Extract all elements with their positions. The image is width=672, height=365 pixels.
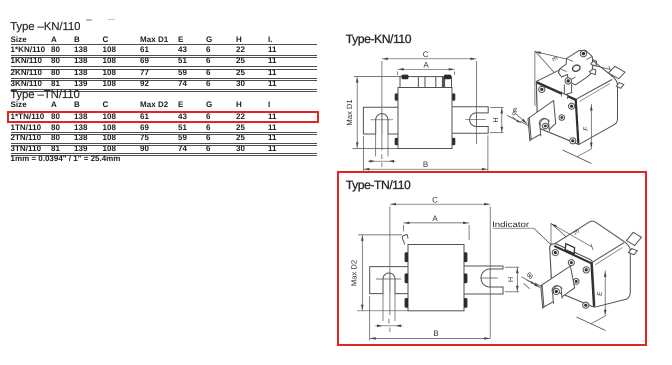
KN 3D body inner edges xyxy=(576,80,612,145)
KN 2D label I xyxy=(379,152,384,160)
TN 3D E dimension right xyxy=(604,270,607,316)
KN 3D blade thickness edge xyxy=(528,118,550,141)
TN 2D fuse body xyxy=(408,245,464,311)
KN 2D cap top tabs xyxy=(402,75,409,80)
Indicator leader line xyxy=(534,228,551,245)
KN 2D dimension B xyxy=(363,168,488,171)
svg-text:E: E xyxy=(550,56,559,64)
KN 2D thickness leader 6 xyxy=(507,115,530,126)
TN 2D dimension C xyxy=(390,203,490,206)
KN 3D plate screws xyxy=(539,86,545,92)
TN 2D thickness leader 6 xyxy=(522,277,544,288)
svg-text:I: I xyxy=(388,318,390,325)
KN 2D right blade centerline xyxy=(465,119,485,121)
KN 3D dimension plane lines xyxy=(534,51,536,106)
KN 2D A extension lines xyxy=(397,72,399,76)
svg-text:A: A xyxy=(423,61,429,70)
TN 2D right blade centerline xyxy=(481,277,498,279)
section title Type-TN/110 (inside red box) xyxy=(346,179,411,191)
KN 3D plate center pin xyxy=(559,115,565,121)
svg-text:C: C xyxy=(423,50,429,59)
KN 2D left blade centerline xyxy=(371,119,394,121)
TN 2D dimension I xyxy=(375,325,402,328)
KN 2D fuse cap xyxy=(400,77,452,88)
svg-text:C: C xyxy=(432,195,438,204)
svg-text:B: B xyxy=(423,160,428,169)
KN 3D fuse body block xyxy=(536,57,617,144)
table 2 row 2TN/110 xyxy=(11,134,42,142)
TN 3D indicator window xyxy=(565,244,574,254)
TN 3D center pin xyxy=(573,279,579,285)
KN 2D dimension A xyxy=(398,68,455,71)
TN 3D dimension plane lines xyxy=(550,223,552,277)
KN 3D lug lower screw xyxy=(565,78,571,84)
TN 3D dimension E along top xyxy=(551,224,593,251)
table 2 title xyxy=(10,90,80,101)
TN 2D body side contact tabs xyxy=(405,252,409,262)
TN 2D label I xyxy=(387,317,392,325)
TN 2D dimension H xyxy=(516,267,519,292)
KN 3D plate edge highlight xyxy=(537,83,578,144)
svg-text:H: H xyxy=(491,117,500,122)
KN 2D right blade with fork slot xyxy=(452,107,488,134)
TN 2D H extension lines xyxy=(505,266,519,268)
KN 2D left C ext through slot xyxy=(381,108,383,134)
table 1 header xyxy=(11,36,27,44)
TN 2D indicator striker tab xyxy=(402,234,408,244)
KN 2D C extension lines xyxy=(381,61,383,151)
KN 3D rear blade 2 xyxy=(616,83,624,89)
table 1 row 1*KN/110 xyxy=(11,46,46,54)
table 1 title xyxy=(10,22,80,33)
TN 3D plate screws xyxy=(552,250,558,256)
KN 3D lug inner lines xyxy=(560,50,593,81)
table 1 row 2KN/110 xyxy=(11,69,42,77)
TN 2D dimension B xyxy=(370,337,491,340)
KN 3D blade with notch xyxy=(529,101,555,140)
TN 2D right blade with fork slot xyxy=(464,266,503,294)
TN 2D B extension line left xyxy=(369,296,371,341)
TN 3D fuse body block xyxy=(552,221,631,307)
svg-text:B: B xyxy=(433,329,438,338)
KN 3D lug top screw xyxy=(580,50,586,56)
KN 3D lug oval hole xyxy=(572,64,581,72)
KN 2D dimension I xyxy=(368,160,396,163)
svg-text:Indicator: Indicator xyxy=(492,220,529,229)
KN 3D plate notch under lug xyxy=(562,91,568,99)
svg-text:H: H xyxy=(506,277,515,282)
table 1 header rule xyxy=(11,44,318,45)
TN 3D striker pin xyxy=(568,260,574,266)
KN 2D B extension lines xyxy=(362,136,364,171)
KN 2D cap stripes xyxy=(418,77,444,88)
KN 3D plate screw bottom-left (seen through blade notch) xyxy=(543,123,549,129)
TN 3D rear blade 2 xyxy=(629,249,638,255)
TN 3D plate edge highlight xyxy=(554,246,594,306)
KN 3D lug foot xyxy=(564,84,571,95)
conversion note xyxy=(11,155,121,163)
TN 3D blade with notch xyxy=(542,266,575,307)
faint scan marks xyxy=(86,19,92,21)
TN 2D slot extension lines for I xyxy=(382,294,384,321)
table 2 row 3TN/110 xyxy=(11,145,42,153)
TN 2D dimension Max D2 xyxy=(361,235,364,311)
KN 2D dimension Max D1 xyxy=(356,77,359,149)
TN 3D rear blade 1 xyxy=(627,232,642,245)
TN 2D left blade centerline xyxy=(376,278,401,280)
KN 2D left blade with slot xyxy=(363,107,398,134)
TN 2D C extension lines xyxy=(389,207,391,316)
svg-text:I: I xyxy=(381,154,383,161)
svg-text:Max D1: Max D1 xyxy=(345,99,354,125)
KN 2D H extension lines xyxy=(490,106,504,108)
TN 3D blade thickness edge xyxy=(541,285,563,308)
red outline box Type-TN section xyxy=(337,171,647,346)
svg-text:A: A xyxy=(432,214,438,223)
TN 2D dimension A xyxy=(403,222,469,225)
TN 3D body inner edges xyxy=(592,243,624,308)
KN 2D slot extension lines for I xyxy=(375,134,377,157)
table 2 header xyxy=(11,101,27,109)
KN 3D front plate xyxy=(536,81,579,144)
TN 3D front plate xyxy=(550,244,595,307)
KN 3D lug right teeth xyxy=(591,60,597,75)
KN 3D blade leader 6 xyxy=(513,114,528,124)
KN 2D dimension H xyxy=(501,107,504,132)
highlight red box row 1*TN/110 xyxy=(7,111,319,123)
section title Type-KN/110 xyxy=(346,33,411,45)
TN 3D blade notch inner edge xyxy=(553,286,562,293)
table 2 row 1*TN/110 xyxy=(11,113,45,121)
table 1 row 1KN/110 xyxy=(11,57,42,65)
KN 2D dimension C xyxy=(382,58,477,61)
svg-text:Max D2: Max D2 xyxy=(350,260,359,286)
table 1 row 3KN/110 xyxy=(11,80,42,88)
TN 2D left blade with slot xyxy=(370,267,408,294)
TN 2D A extension lines xyxy=(402,225,404,232)
KN 3D dimension E along top xyxy=(535,52,611,73)
KN 3D blade notch inner edge xyxy=(541,119,550,126)
KN 3D top terminal lug xyxy=(559,50,593,85)
KN 3D f dimension right xyxy=(590,104,593,149)
KN 2D fuse body xyxy=(398,88,452,149)
TN 3D blade leader 6 xyxy=(524,280,541,289)
KN 2D body side contact tabs xyxy=(395,93,399,100)
KN 3D rear blade 1 xyxy=(609,66,626,79)
table 2 row 1TN/110 xyxy=(11,124,42,132)
